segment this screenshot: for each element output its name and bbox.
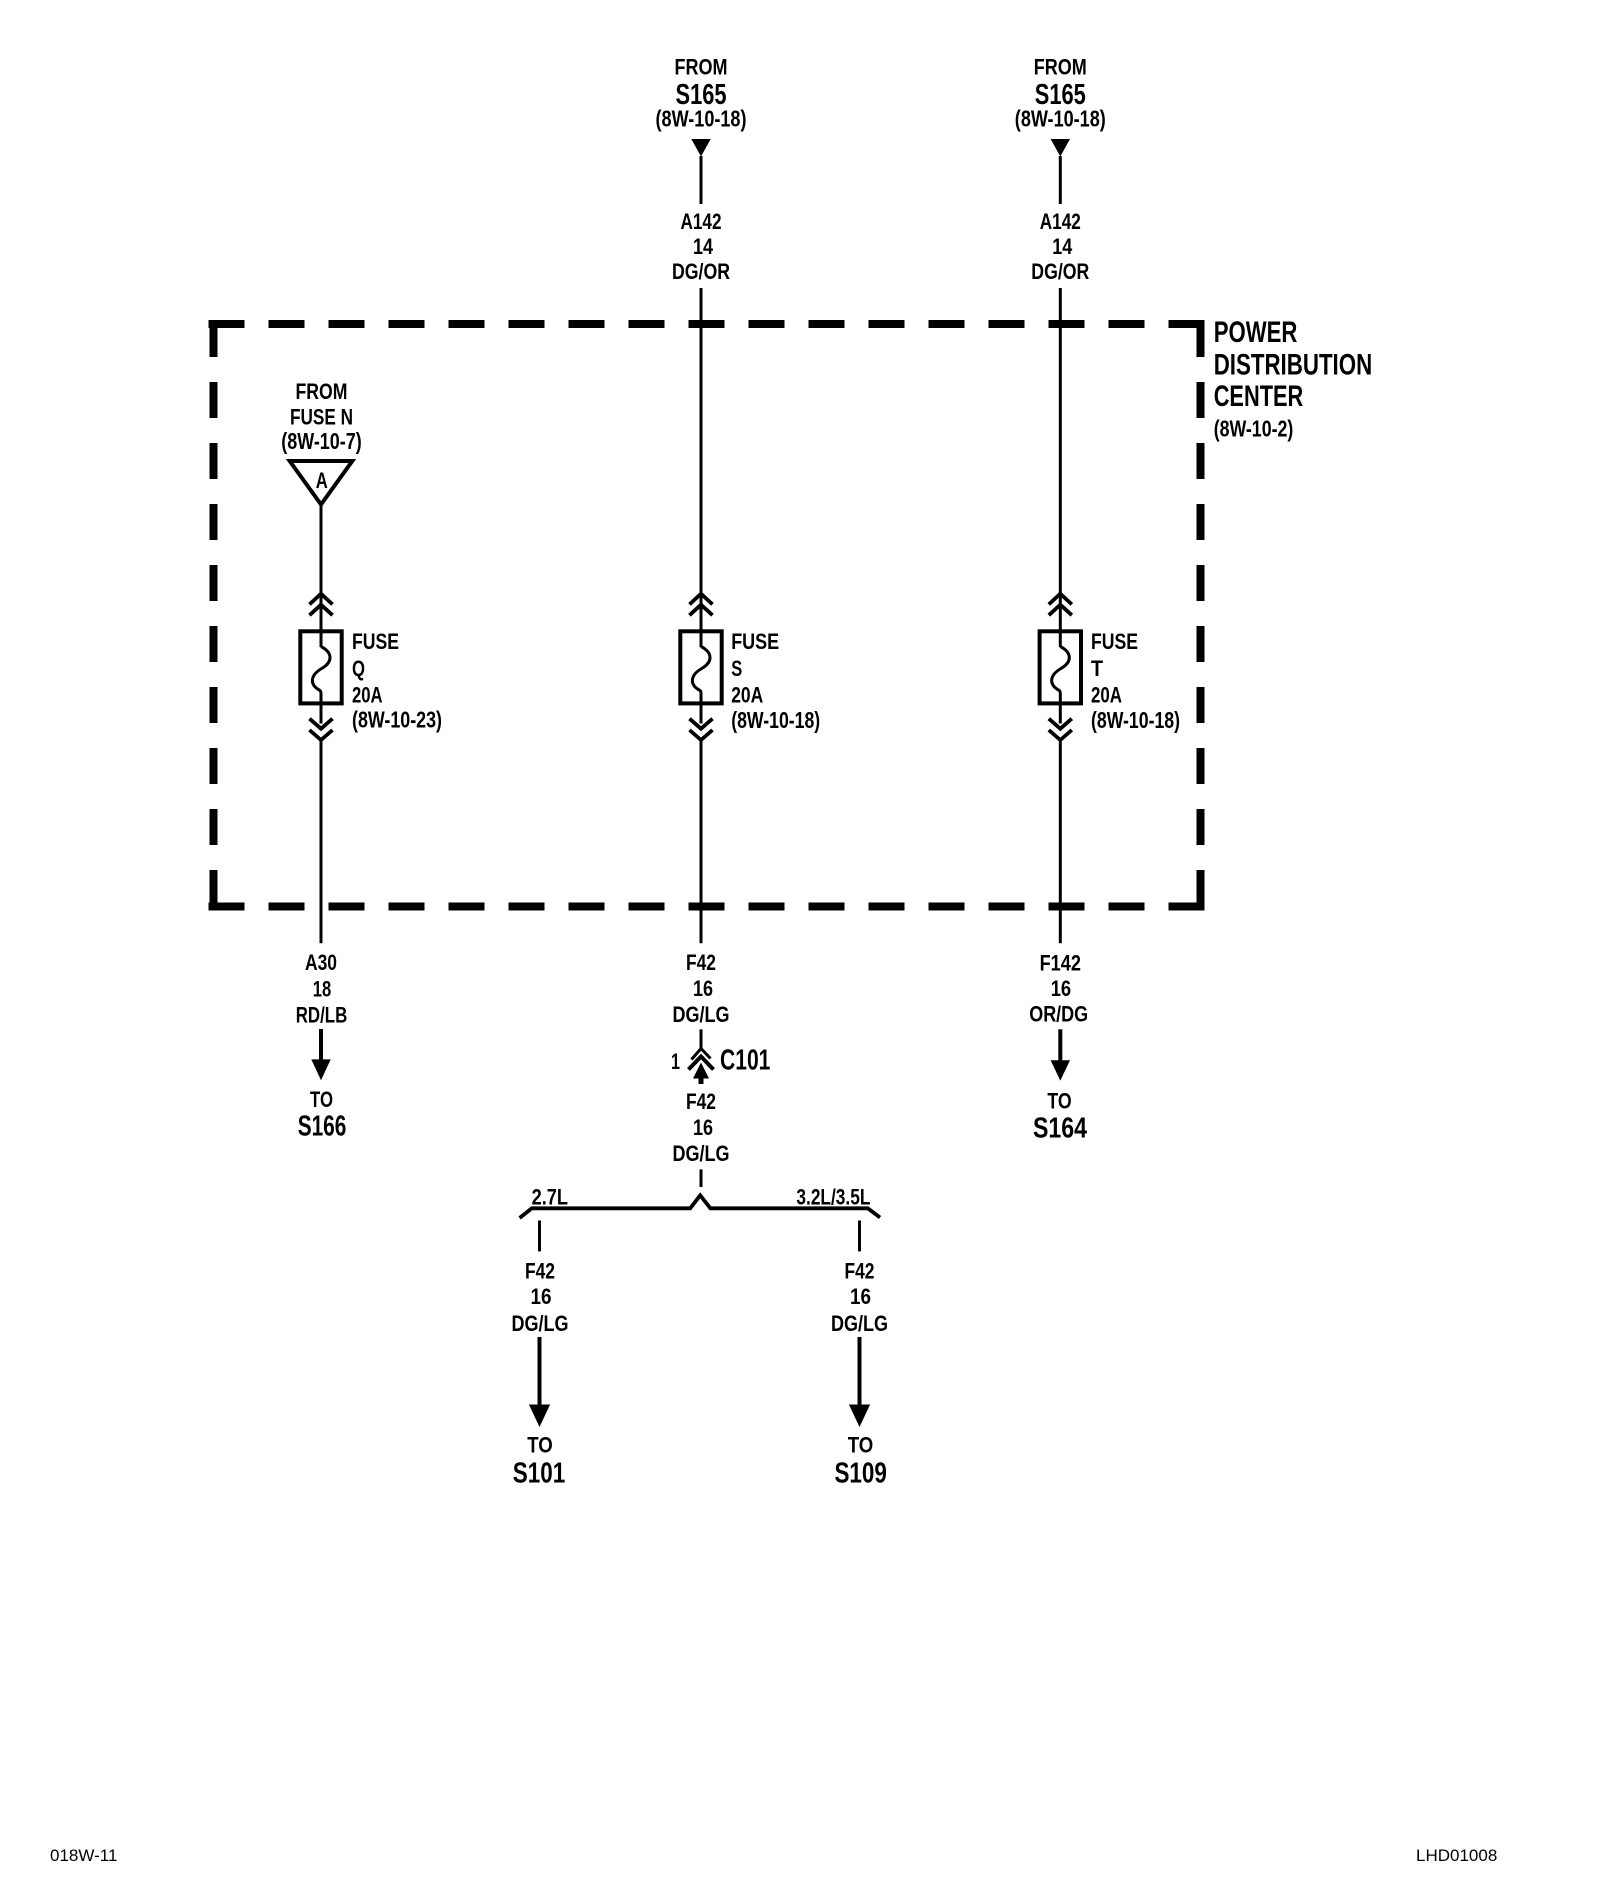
wire below fuse Q — [320, 741, 323, 943]
svg-text:(8W-10-18): (8W-10-18) — [1015, 106, 1106, 132]
wire arrow to S101 — [529, 1337, 550, 1427]
svg-text:(8W-10-7): (8W-10-7) — [281, 428, 361, 454]
label F142 16 OR/DG — [1029, 951, 1088, 1027]
svg-text:16: 16 — [693, 1115, 713, 1140]
svg-text:20A: 20A — [352, 683, 383, 708]
svg-text:F42: F42 — [686, 950, 716, 975]
svg-text:14: 14 — [693, 234, 714, 259]
node TO S109 label — [834, 1433, 887, 1490]
svg-text:DG/LG: DG/LG — [512, 1311, 569, 1336]
svg-text:20A: 20A — [1091, 683, 1122, 708]
wire feed arrowhead (right) — [1051, 139, 1070, 157]
power distribution center dashed box top edge — [209, 320, 1205, 328]
label A142 14 DG/OR (center) — [672, 209, 730, 284]
svg-text:Q: Q — [352, 656, 365, 681]
connector C101 symbol pin 1 — [689, 1049, 714, 1085]
svg-text:POWER: POWER — [1214, 316, 1298, 349]
svg-text:(8W-10-18): (8W-10-18) — [656, 106, 747, 132]
wire stub into engine split — [700, 1169, 703, 1187]
svg-text:16: 16 — [693, 976, 713, 1001]
label POWER DISTRIBUTION CENTER (8W-10-2) — [1214, 316, 1373, 441]
label FUSE T 20A (8W-10-18) — [1091, 629, 1180, 733]
label A30 18 RD/LB — [296, 950, 348, 1027]
engine split brace — [520, 1195, 880, 1218]
wire stub 2.7L branch — [538, 1221, 541, 1252]
svg-text:(8W-10-23): (8W-10-23) — [352, 707, 442, 733]
fuse S symbol — [680, 594, 721, 740]
svg-text:S164: S164 — [1033, 1112, 1087, 1144]
svg-text:A30: A30 — [305, 950, 337, 975]
label FUSE Q 20A (8W-10-23) — [352, 629, 442, 733]
svg-text:DG/LG: DG/LG — [673, 1002, 730, 1027]
svg-text:16: 16 — [531, 1284, 552, 1309]
power distribution center dashed box bottom edge — [209, 903, 1205, 911]
svg-text:(8W-10-18): (8W-10-18) — [1091, 707, 1180, 733]
svg-text:018W-11: 018W-11 — [50, 1846, 117, 1865]
wire arrow to S164 — [1051, 1029, 1070, 1080]
svg-text:DG/LG: DG/LG — [673, 1141, 730, 1166]
connector triangle A (from fuse N) — [290, 461, 353, 505]
wire A142 lower segment into PDC (right) — [1059, 288, 1062, 594]
svg-text:FUSE N: FUSE N — [290, 404, 353, 429]
node TO S166 label — [298, 1087, 347, 1143]
svg-text:TO: TO — [1047, 1089, 1071, 1114]
wire arrow to S166 — [311, 1029, 330, 1080]
svg-text:CENTER: CENTER — [1214, 380, 1304, 413]
node FROM FUSE N label — [281, 379, 361, 454]
svg-text:14: 14 — [1052, 234, 1073, 259]
svg-text:FROM: FROM — [296, 379, 348, 404]
svg-text:F42: F42 — [525, 1259, 555, 1284]
wire A142 lower segment into PDC (center) — [700, 288, 703, 594]
wire into connector C101 — [700, 1029, 703, 1048]
svg-text:1: 1 — [671, 1049, 680, 1074]
fuse Q symbol — [300, 594, 341, 740]
wire feed arrowhead (center) — [691, 139, 710, 157]
svg-text:TO: TO — [848, 1433, 874, 1458]
svg-text:TO: TO — [527, 1433, 553, 1458]
label F42 16 DG/LG (3.2L/3.5L branch) — [831, 1259, 888, 1337]
svg-text:18: 18 — [313, 976, 332, 1001]
wire arrow to S109 — [849, 1337, 870, 1427]
svg-text:RD/LB: RD/LB — [296, 1002, 348, 1027]
svg-text:FUSE: FUSE — [352, 629, 399, 654]
svg-text:S166: S166 — [298, 1111, 347, 1143]
svg-text:C101: C101 — [720, 1045, 770, 1077]
svg-text:FUSE: FUSE — [731, 629, 779, 654]
svg-text:S: S — [731, 656, 742, 681]
svg-text:3.2L/3.5L: 3.2L/3.5L — [796, 1184, 870, 1209]
svg-text:2.7L: 2.7L — [532, 1184, 568, 1209]
fuse T symbol — [1040, 594, 1081, 740]
svg-text:16: 16 — [1051, 976, 1071, 1001]
wire stub 3.2L/3.5L branch — [858, 1221, 861, 1252]
wire A142 upper segment (center) — [700, 156, 703, 204]
svg-text:DG/LG: DG/LG — [831, 1311, 888, 1336]
svg-text:(8W-10-2): (8W-10-2) — [1214, 415, 1294, 441]
node FROM S165 (center feed label) — [656, 55, 747, 132]
svg-text:F42: F42 — [686, 1089, 716, 1114]
wire below fuse S — [700, 741, 703, 943]
wire below fuse T — [1059, 741, 1062, 943]
svg-text:S109: S109 — [834, 1458, 887, 1490]
svg-text:OR/DG: OR/DG — [1029, 1002, 1088, 1027]
svg-text:(8W-10-18): (8W-10-18) — [731, 707, 820, 733]
svg-text:20A: 20A — [731, 683, 763, 708]
svg-text:F142: F142 — [1040, 951, 1081, 976]
label F42 16 DG/LG (2.7L branch) — [512, 1259, 569, 1337]
label FUSE S 20A (8W-10-18) — [731, 629, 820, 733]
svg-text:DG/OR: DG/OR — [672, 259, 730, 284]
svg-text:16: 16 — [850, 1284, 871, 1309]
node TO S101 label — [513, 1433, 566, 1490]
svg-text:LHD01008: LHD01008 — [1416, 1846, 1497, 1865]
svg-text:FUSE: FUSE — [1091, 629, 1138, 654]
label F42 16 DG/LG (below C101) — [673, 1089, 730, 1166]
wire from triangle A to fuse Q — [320, 505, 323, 595]
svg-text:F42: F42 — [845, 1259, 875, 1284]
svg-text:FROM: FROM — [1034, 55, 1087, 80]
node FROM S165 (right feed label) — [1015, 55, 1106, 132]
svg-text:FROM: FROM — [675, 55, 728, 80]
svg-text:A142: A142 — [1040, 209, 1081, 234]
svg-text:A142: A142 — [681, 209, 722, 234]
svg-text:T: T — [1091, 656, 1103, 681]
svg-text:TO: TO — [310, 1087, 333, 1112]
svg-text:S101: S101 — [513, 1458, 566, 1490]
wire A142 upper segment (right) — [1059, 156, 1062, 204]
node TO S164 label — [1033, 1089, 1087, 1145]
label A142 14 DG/OR (right) — [1031, 209, 1089, 284]
svg-text:A: A — [316, 468, 328, 493]
power distribution center dashed box right edge — [1197, 321, 1205, 910]
svg-text:DG/OR: DG/OR — [1031, 259, 1089, 284]
label F42 16 DG/LG (above C101) — [673, 950, 730, 1027]
power distribution center dashed box left edge — [210, 321, 218, 910]
svg-text:DISTRIBUTION: DISTRIBUTION — [1214, 349, 1373, 382]
